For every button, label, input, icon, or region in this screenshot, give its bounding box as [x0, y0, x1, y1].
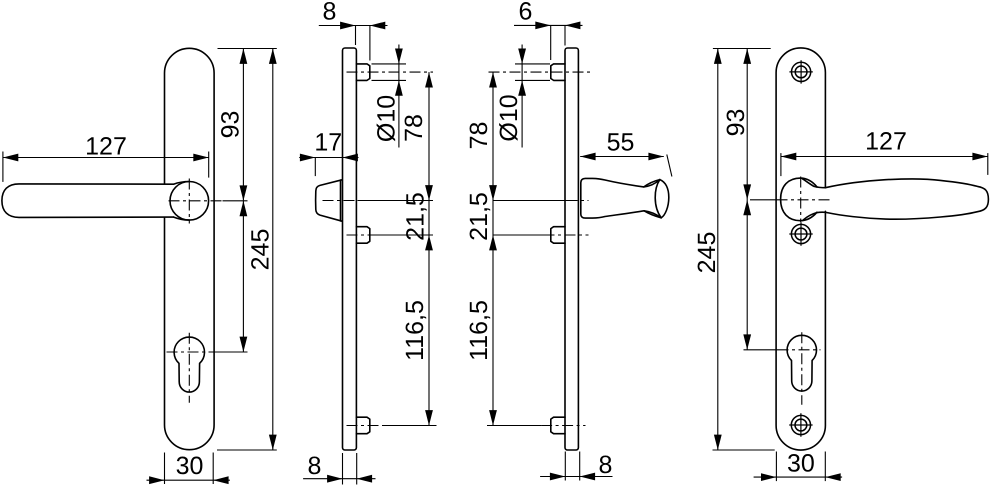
dim line 17 (view2) [299, 157, 358, 159]
dim line 127 (view1) [3, 157, 209, 159]
arrow 55 right [648, 153, 663, 161]
arrow diameter10 top [395, 49, 403, 64]
backplate P4 [776, 48, 825, 450]
backplate side profile P3 [565, 48, 578, 450]
extension 6 right [564, 25, 566, 45]
svg-text:116,5: 116,5 [465, 300, 493, 361]
arrow 78 top [425, 72, 433, 87]
middle fixing lug (view3) [551, 227, 565, 244]
extension lug top edge (view2) [372, 63, 407, 65]
svg-text:8: 8 [323, 0, 337, 26]
handle grip side profile (view3) [581, 178, 669, 218]
bottom fixing lug (view3) [551, 417, 565, 434]
svg-text:93: 93 [722, 109, 750, 137]
arrow 8 bottom right [357, 475, 372, 483]
extension 8 bottom right (view3) [579, 452, 581, 481]
dim line 93 and chain (view4) [746, 49, 748, 350]
arrow chain top [240, 201, 248, 216]
extension 8 bottom left [342, 453, 344, 485]
extension 8 top left [355, 26, 357, 46]
svg-text:93: 93 [217, 111, 245, 139]
dim line 245 (view1) [272, 49, 274, 451]
extension bottom lug (view2) [383, 425, 437, 427]
handle hub (view4) [781, 178, 817, 221]
euro cylinder hole K1 [174, 337, 204, 392]
arrow 55 left [580, 153, 595, 161]
hub center line vertical (view4) [800, 177, 802, 223]
dim line 8 bottom (view2) [303, 478, 375, 480]
arrow 21,5 bottom / 116,5 top [425, 235, 433, 250]
backplate P1 [165, 48, 215, 449]
extension 6 left [550, 25, 552, 60]
thumbturn T2 [316, 180, 342, 221]
arrow 93 bottom [240, 185, 248, 200]
arrow 245 bottom [269, 435, 277, 450]
arrow 8 bottom left [327, 475, 342, 483]
dim line 78 21,5 116,5 (view2) [428, 72, 430, 425]
screw S2 cross [789, 222, 812, 245]
thumbturn base edge [340, 180, 342, 221]
screw S1 inner [795, 66, 807, 78]
extension 30 right (view4) [824, 452, 826, 482]
svg-text:127: 127 [85, 133, 127, 161]
arrow diameter10 top (view3) [518, 49, 526, 64]
extension line 127 right [208, 152, 210, 178]
arrow 93 bottom (view4) [743, 184, 751, 199]
extension line handle center (view1) [223, 200, 248, 202]
arrow 6 right [565, 22, 580, 30]
extension middle lug (view2) [377, 234, 434, 236]
arrow 8 top left [340, 22, 355, 30]
extension 30 left (view4) [775, 452, 777, 482]
extension 127 left (view4) [780, 153, 782, 176]
svg-text:Ø10: Ø10 [495, 94, 523, 141]
arrow 245 bottom (view4) [714, 435, 722, 450]
cylinder extension line (view4) [744, 349, 778, 351]
arrow 116,5 bottom [425, 410, 433, 425]
extension middle lug (view3) [494, 234, 544, 236]
arrow 127 left [3, 154, 18, 162]
arrow 93 top (view4) [743, 49, 751, 64]
svg-text:245: 245 [693, 232, 721, 274]
backplate side profile P2 [343, 48, 357, 450]
arrow 30 left [149, 476, 164, 484]
arrow 30 left (view4) [761, 473, 776, 481]
svg-text:30: 30 [176, 452, 204, 480]
oblique extension 55 right (view3) [667, 155, 672, 177]
hub center line vertical [188, 179, 190, 224]
arrow diameter10 bottom [395, 80, 403, 95]
dim line 6 top (view3) [514, 24, 583, 26]
arrow chain bottom (view4) [743, 334, 751, 349]
screw S1 cross [789, 60, 812, 83]
euro cylinder hole K4 [787, 335, 816, 391]
svg-text:78: 78 [465, 122, 493, 150]
svg-text:21,5: 21,5 [402, 192, 430, 241]
cylinder center line vertical (view4) [801, 332, 803, 405]
extension lug bottom edge (view2) [372, 79, 407, 81]
handle hub circle [170, 182, 209, 221]
arrow 127 right [193, 154, 208, 162]
svg-text:116,5: 116,5 [401, 300, 429, 361]
extension line cylinder center (view1) [219, 351, 248, 353]
extension 17 left [314, 158, 316, 177]
arrow 78 bottom / 21,5 top (view3) [489, 185, 497, 200]
arrow chain bottom [240, 337, 248, 352]
arrow diameter10 bottom (view3) [518, 80, 526, 95]
screw S2 outer [791, 224, 810, 243]
bell top inner lens (view3) [644, 180, 660, 187]
handle center line (view3) [567, 200, 589, 202]
extension line bottom (view4) [713, 449, 775, 451]
extension 8 top right [369, 26, 371, 61]
VIEW 4 : inside front view with screws [776, 48, 988, 450]
dim line 8 bottom (view3) [540, 476, 612, 478]
top fixing lug (view3) [551, 64, 565, 81]
screw S3 cross [789, 413, 812, 436]
extension 8 bottom right [356, 453, 358, 485]
arrow chain top (view4) [743, 200, 751, 215]
extension line top (view1) [218, 48, 277, 50]
cylinder center line horizontal (view4) [778, 349, 821, 351]
VIEW 3 : side profile with lever handle [551, 48, 669, 450]
svg-text:6: 6 [519, 0, 533, 26]
svg-text:8: 8 [599, 451, 613, 479]
hub center line horizontal [169, 200, 223, 202]
cylinder center line horizontal [167, 351, 219, 353]
extension 127 right (view4) [987, 153, 989, 175]
arrow 93 top [240, 49, 248, 64]
arrow 30 right (view4) [825, 473, 840, 481]
arrow 127 right (view4) [972, 153, 987, 161]
svg-text:30: 30 [787, 450, 815, 478]
arrow 78 bottom / 21,5 top [425, 185, 433, 200]
svg-text:17: 17 [314, 129, 342, 157]
arrow 17 left [300, 154, 315, 162]
dim line 93 and chain (view1) [242, 49, 244, 353]
arrow 21,5 bottom / 116,5 top (view3) [489, 235, 497, 250]
top fixing lug (view2) [356, 64, 369, 81]
dim line diameter 10 (view3) [521, 45, 523, 148]
hub center line horizontal (view4) [750, 199, 777, 201]
extension line 30 left [164, 453, 166, 485]
svg-text:78: 78 [400, 114, 428, 142]
screw S2 inner [795, 228, 807, 240]
handle center line (view2) [323, 200, 358, 202]
middle lug center line (view3) [544, 234, 589, 236]
lever handle L1 [2, 184, 174, 218]
hub top fillet (view1) [174, 182, 190, 185]
extension line 127 left [2, 152, 4, 182]
svg-text:55: 55 [607, 129, 635, 157]
arrow 78 top (view3) [489, 72, 497, 87]
arrow 116,5 bottom (view3) [489, 410, 497, 425]
hub bottom fillet (view1) [174, 217, 190, 220]
extension 8 bottom left (view3) [564, 452, 566, 481]
svg-text:Ø10: Ø10 [373, 95, 401, 142]
screw S3 inner [795, 419, 807, 431]
bell bottom inner lens (view3) [644, 211, 661, 218]
extension lug bottom edge (view3) [515, 79, 550, 81]
top lug center line (view2) [347, 71, 434, 73]
extension line top (view4) [713, 48, 771, 50]
top lug center line (view3) [489, 71, 591, 73]
dim line 78 21,5 116,5 (view3) [492, 72, 494, 425]
svg-text:21,5: 21,5 [465, 192, 493, 241]
extension handle center (view3) [494, 200, 567, 202]
handle bell rim inner edge (view3) [655, 180, 661, 218]
dim line 8 top (view2) [319, 25, 388, 27]
arrow 6 left [535, 22, 550, 30]
svg-text:245: 245 [247, 229, 275, 271]
hub center line horizontal dashed (view4) [777, 199, 833, 201]
extension line 30 right [212, 453, 214, 485]
bottom lug center line (view2) [347, 425, 383, 427]
extension lug top edge (view3) [515, 63, 550, 65]
dim line diameter 10 (view2) [398, 45, 400, 148]
arrow 8 bottom right (view3) [580, 473, 595, 481]
svg-text:8: 8 [308, 452, 322, 480]
cylinder center line vertical [188, 333, 190, 403]
middle lug center line (view2) [347, 234, 377, 236]
arrow 8 top right [370, 22, 385, 30]
arrow 127 left (view4) [781, 153, 796, 161]
middle fixing lug (view2) [356, 227, 369, 244]
screw S1 outer [792, 62, 811, 81]
screw S3 outer [791, 415, 810, 434]
bottom lug center line (view3) [541, 425, 585, 427]
arrow 17 right [343, 154, 358, 162]
extension bottom lug (view3) [487, 425, 541, 427]
arrow 245 top (view4) [714, 49, 722, 64]
arrow 8 bottom left (view3) [550, 473, 565, 481]
lever handle grip (view4) [802, 178, 988, 219]
dim line 30 (view1) [147, 479, 230, 481]
dim line 55 (view3) [580, 156, 664, 158]
extension handle center (view2) [358, 200, 434, 202]
dim line 245 (view4) [717, 49, 719, 451]
extension line bottom (view1) [217, 449, 277, 451]
dim line 30 (view4) [754, 476, 843, 478]
dim line 127 (view4) [781, 156, 988, 158]
bottom fixing lug (view2) [356, 417, 369, 434]
svg-text:127: 127 [865, 128, 907, 156]
VIEW 2 : side profile with thumbturn [316, 48, 370, 450]
arrow 245 top [269, 49, 277, 64]
arrow 30 right [213, 476, 228, 484]
